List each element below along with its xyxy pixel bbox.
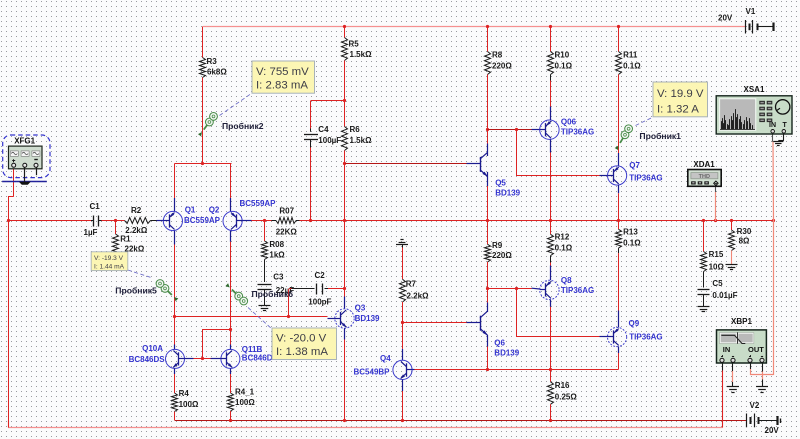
resistor R4 xyxy=(172,389,199,412)
wire Q1 collector drop xyxy=(174,164,176,212)
svg-text:20V: 20V xyxy=(718,14,733,23)
svg-text:100Ω: 100Ω xyxy=(179,400,199,409)
wire R7 to junction xyxy=(402,302,404,323)
svg-text:R13: R13 xyxy=(623,227,638,236)
svg-text:V1: V1 xyxy=(746,7,756,16)
svg-text:100pF: 100pF xyxy=(308,297,331,306)
resistor R1 xyxy=(113,234,145,255)
capacitor C2 xyxy=(308,271,331,306)
resistor R12 xyxy=(548,232,573,255)
resistor R30 xyxy=(729,227,752,251)
svg-text:C5: C5 xyxy=(712,279,723,288)
wire Q7 emitter down xyxy=(618,185,620,221)
wire Q3 emitter to bus1 xyxy=(344,328,346,420)
wire R8 top lead xyxy=(487,27,489,52)
node R08 junction xyxy=(263,219,266,222)
wire R10 top lead xyxy=(550,27,552,52)
node bus1 junction Q4 xyxy=(401,419,404,422)
wire Q5 emitter down xyxy=(487,172,489,221)
transistor Q11B BC846D xyxy=(221,345,273,369)
svg-text:I: 1.38 mA: I: 1.38 mA xyxy=(276,346,328,358)
node C2 tap junction xyxy=(287,315,290,318)
node top-bus junction R10 xyxy=(549,25,552,28)
wire R5 top lead xyxy=(344,27,346,38)
svg-text:BC559AP: BC559AP xyxy=(184,216,221,225)
wire Q7 base drop xyxy=(516,130,608,176)
resistor R07 xyxy=(276,206,298,236)
wire bus2 y=427 xyxy=(8,427,723,429)
node mid-bus junction R12 xyxy=(549,219,552,222)
wire R08 to C3 xyxy=(264,260,266,283)
resistor R5 xyxy=(342,38,373,61)
wire Q9 emitter elbow to base line xyxy=(618,368,620,370)
wire OUT+ lead xyxy=(750,363,752,375)
svg-text:R15: R15 xyxy=(709,250,724,259)
wire R11 to Q7 collector xyxy=(618,75,620,167)
probe Пробник5 xyxy=(156,280,178,302)
wire Q11 emitter down xyxy=(230,369,232,394)
svg-text:C2: C2 xyxy=(315,271,326,280)
svg-text:Пробник2: Пробник2 xyxy=(222,121,264,131)
wire C4 top lead xyxy=(310,101,312,132)
svg-text:8Ω: 8Ω xyxy=(739,237,750,246)
resistor R15 xyxy=(701,250,725,271)
wire R5R6 column to Q3 xyxy=(344,221,346,309)
svg-text:IN: IN xyxy=(723,345,731,354)
svg-text:Q5: Q5 xyxy=(495,179,506,188)
wire R10 to Q06 collector xyxy=(550,75,552,121)
wire R08 top lead xyxy=(264,221,266,241)
wire C2 right lead xyxy=(325,288,346,290)
svg-text:Q8: Q8 xyxy=(561,276,572,285)
svg-text:BC559AP: BC559AP xyxy=(240,199,277,208)
capacitor C4 xyxy=(304,125,341,145)
resistor R4_1 xyxy=(228,388,256,412)
svg-text:Q7: Q7 xyxy=(629,161,640,170)
svg-text:R3: R3 xyxy=(207,57,218,66)
node mid-bus junction R9 xyxy=(486,219,489,222)
svg-text:OUT: OUT xyxy=(748,345,764,354)
resistor R11 xyxy=(616,51,642,75)
resistor R08 xyxy=(262,240,286,260)
svg-text:BD139: BD139 xyxy=(355,314,380,323)
wire XBP1 OUT- down xyxy=(762,363,764,387)
wire Q4 base line mid xyxy=(488,369,551,371)
wire Q10 emitter down xyxy=(174,369,176,394)
probe value box Пробник1 xyxy=(653,82,708,117)
svg-text:I: 1.32 A: I: 1.32 A xyxy=(657,103,699,115)
transistor Q06 TIP36AG xyxy=(540,117,595,139)
node left trunk signal junction xyxy=(7,219,10,222)
wire C2 left lead xyxy=(289,288,315,290)
wire right column to XBP OUT+ xyxy=(750,221,774,375)
wire R16 to bus1 xyxy=(550,404,552,420)
node bus1 junction Q3 xyxy=(343,419,346,422)
resistor R6 xyxy=(342,125,373,151)
wire R12 to Q8 collector xyxy=(550,256,552,281)
wire Q9 base drop xyxy=(516,288,608,337)
wire C4 bottom lead xyxy=(310,140,312,222)
wire R15 top lead xyxy=(703,221,705,252)
wire R1 top lead xyxy=(115,221,117,234)
node T junction R3/Q1/Q2 xyxy=(201,162,204,165)
wire XBP1 IN+ down xyxy=(722,363,724,428)
svg-text:6k8Ω: 6k8Ω xyxy=(207,68,227,77)
svg-text:1kΩ: 1kΩ xyxy=(269,251,285,260)
label Пробник5 xyxy=(115,285,157,295)
svg-text:100µF: 100µF xyxy=(318,136,341,145)
svg-text:220Ω: 220Ω xyxy=(492,251,512,260)
svg-text:C4: C4 xyxy=(318,125,329,134)
resistor R8 xyxy=(485,51,513,75)
label Пробник2 xyxy=(222,121,264,131)
ground XBP1 OUT- xyxy=(756,387,768,393)
svg-text:Q1: Q1 xyxy=(185,206,196,215)
svg-text:XBP1: XBP1 xyxy=(731,317,752,326)
wire bus1 y=419.5 xyxy=(175,420,747,422)
probe link Пробник1 xyxy=(636,117,654,126)
ground R7 top (inverted) xyxy=(396,240,408,248)
wire Q2 emitter column xyxy=(230,231,232,350)
svg-text:R8: R8 xyxy=(492,51,503,60)
svg-text:BC846DS: BC846DS xyxy=(129,355,166,364)
svg-text:I: 2.83 mA: I: 2.83 mA xyxy=(256,80,308,92)
probe Пробник2 xyxy=(198,113,217,137)
node Q6 emitter junction xyxy=(486,368,489,371)
distortion analyzer XDA1 xyxy=(688,160,721,187)
node Q8 base junction xyxy=(486,287,489,290)
wire XFG1 plus lead xyxy=(8,169,14,197)
svg-text:V: -19.3 V: V: -19.3 V xyxy=(94,255,124,262)
svg-text:TIP36AG: TIP36AG xyxy=(561,286,594,295)
wire Q4 emitter down xyxy=(402,380,404,421)
resistor R7 xyxy=(400,279,430,302)
svg-text:0.1Ω: 0.1Ω xyxy=(623,62,641,71)
node C4 elbow junction xyxy=(343,99,346,102)
node mid-bus junction R5R6 xyxy=(343,219,346,222)
ground XSA1 xyxy=(773,142,783,146)
function generator XFG1 xyxy=(2,135,50,185)
svg-text:R1: R1 xyxy=(120,234,131,243)
wire XSA1 IN down xyxy=(773,134,774,221)
svg-text:BC549BP: BC549BP xyxy=(354,367,391,376)
wire C3 to ground xyxy=(264,289,266,305)
transistor Q3 BD139 xyxy=(335,304,380,328)
node Q4 base R16 junction xyxy=(549,368,552,371)
wire to Q3 base xyxy=(289,317,335,319)
wire R13 to Q9 collector xyxy=(618,248,620,327)
wire R2 to Q1 base xyxy=(151,220,164,222)
svg-text:XSA1: XSA1 xyxy=(744,85,765,94)
wire Q5 base line y=163 xyxy=(345,163,481,165)
wire Q2 collector drop xyxy=(230,164,232,212)
svg-text:T: T xyxy=(783,122,788,129)
node C2/R6 junction xyxy=(343,287,346,290)
node Q1/Q10 junction xyxy=(173,315,176,318)
transistor Q2 BC559AP xyxy=(209,199,276,231)
wire Q1 emitter column xyxy=(174,231,176,316)
svg-text:1.5kΩ: 1.5kΩ xyxy=(350,136,373,145)
svg-text:XDA1: XDA1 xyxy=(693,160,715,169)
probe Пробник1 xyxy=(615,125,633,150)
svg-text:Q6: Q6 xyxy=(494,339,505,348)
resistor R10 xyxy=(548,51,573,75)
wire Q06 emitter down xyxy=(550,139,552,221)
wire Q8 base line xyxy=(488,287,540,290)
svg-text:R10: R10 xyxy=(555,51,570,60)
svg-text:R11: R11 xyxy=(623,51,638,60)
probe value box Пробник2 xyxy=(252,61,315,93)
node bus1 junction R4_1 xyxy=(229,419,232,422)
wire left trunk x=7.5 xyxy=(8,197,10,428)
wire Q8 emitter down xyxy=(550,300,552,370)
spectrum analyzer XSA1 xyxy=(716,85,792,134)
svg-text:R4_1: R4_1 xyxy=(235,388,255,397)
node bus1 junction R16 xyxy=(549,419,552,422)
svg-text:Пробник5: Пробник5 xyxy=(115,285,157,295)
wire R13 top lead xyxy=(618,221,620,229)
wire R6 to Q5 junction xyxy=(344,151,346,222)
svg-text:V: 19.9 V: V: 19.9 V xyxy=(657,88,704,100)
svg-text:10Ω: 10Ω xyxy=(709,263,725,272)
svg-text:V2: V2 xyxy=(750,401,760,410)
wire R8 to Q5 collector xyxy=(487,75,489,157)
wire R30 top lead xyxy=(731,221,733,230)
ground R30 xyxy=(726,265,738,270)
probe link Пробник6 xyxy=(248,308,272,330)
svg-text:100Ω: 100Ω xyxy=(235,398,255,407)
svg-text:BD139: BD139 xyxy=(495,189,520,198)
wire R9 top lead xyxy=(487,221,489,244)
svg-text:C3: C3 xyxy=(273,272,284,281)
svg-text:R2: R2 xyxy=(131,206,142,215)
svg-text:R08: R08 xyxy=(269,240,284,249)
wire Q4 base line y=369 xyxy=(412,369,487,371)
wire XBP1 IN- down xyxy=(732,363,734,387)
transistor Q10A BC846DS xyxy=(129,344,185,368)
ground C5 xyxy=(698,307,710,312)
svg-text:Q3: Q3 xyxy=(355,304,366,313)
svg-text:Q2: Q2 xyxy=(209,206,220,215)
svg-text:V: 755 mV: V: 755 mV xyxy=(256,66,309,78)
svg-text:I: 1.44 mA: I: 1.44 mA xyxy=(94,263,125,270)
resistor R3 xyxy=(200,57,228,78)
svg-text:2.2kΩ: 2.2kΩ xyxy=(407,291,430,300)
svg-text:R6: R6 xyxy=(350,125,361,134)
svg-text:1µF: 1µF xyxy=(84,228,98,237)
wire R7 junction to Q4 collector xyxy=(402,323,404,360)
svg-text:0.25Ω: 0.25Ω xyxy=(555,392,578,401)
node top-bus junction R11 xyxy=(617,25,620,28)
svg-text:R9: R9 xyxy=(492,241,503,250)
svg-text:Q10A: Q10A xyxy=(142,344,163,353)
resistor R2 xyxy=(116,206,151,235)
svg-text:IN: IN xyxy=(769,122,776,129)
svg-text:TIP36AG: TIP36AG xyxy=(629,333,662,342)
svg-text:THD: THD xyxy=(699,174,710,180)
svg-text:XFG1: XFG1 xyxy=(14,137,35,146)
wire R3 column x=202.5 xyxy=(202,27,204,164)
svg-text:0.01µF: 0.01µF xyxy=(712,291,737,300)
transistor Q6 BD139 xyxy=(480,311,520,357)
svg-text:Q11B: Q11B xyxy=(242,345,263,354)
node mid-bus junction R30 xyxy=(730,219,733,222)
wire top V+ bus y=26 xyxy=(203,26,746,28)
wire C2 corner xyxy=(288,289,290,317)
svg-text:Пробник1: Пробник1 xyxy=(639,131,681,141)
probe value box Пробник5 (mini) xyxy=(91,252,128,271)
wire mid bus y=220.5 xyxy=(296,220,774,222)
node mid-bus junction R13 xyxy=(617,219,620,222)
node top-bus junction R5 xyxy=(343,25,346,28)
wire Q10 collector lead xyxy=(174,316,176,349)
svg-text:R4: R4 xyxy=(179,389,190,398)
resistor R16 xyxy=(548,381,578,404)
transistor Q4 BC549BP xyxy=(354,354,413,380)
ground C3 xyxy=(259,306,271,311)
svg-text:R7: R7 xyxy=(406,280,417,289)
wire R5 to junction xyxy=(344,61,346,127)
wire Q4 base line right xyxy=(551,369,619,371)
svg-text:220Ω: 220Ω xyxy=(492,62,512,71)
probe link Пробник2 xyxy=(220,93,253,116)
svg-text:R07: R07 xyxy=(279,206,294,215)
node top-bus junction R8 xyxy=(486,25,489,28)
transistor Q8 TIP36AG xyxy=(540,276,595,299)
capacitor C5 xyxy=(698,279,738,300)
node mid-bus junction R15 xyxy=(702,219,705,222)
probe link Пробник5 xyxy=(128,270,153,278)
resistor R9 xyxy=(485,241,513,262)
svg-text:0.1Ω: 0.1Ω xyxy=(555,244,573,253)
wire R7 top lead xyxy=(402,248,404,280)
wire R4_1 to bus1 xyxy=(230,411,232,420)
wire XDA1 down xyxy=(715,186,717,221)
node R7/Q6 junction xyxy=(401,321,404,324)
node mid-bus junction C4 xyxy=(309,219,312,222)
transistor Q5 BD139 xyxy=(480,152,521,197)
wire Q11 diode elbow xyxy=(202,330,231,359)
svg-text:Q9: Q9 xyxy=(629,319,640,328)
label Пробник1 xyxy=(639,131,681,141)
svg-text:TIP36AG: TIP36AG xyxy=(561,127,594,136)
node mid-bus right end xyxy=(772,219,775,222)
wire Q1/Q2 top tee y=163 xyxy=(175,163,232,165)
svg-text:22KΩ: 22KΩ xyxy=(276,227,298,236)
wire C4 elbow xyxy=(311,100,345,102)
wire XSA1 T to ground xyxy=(778,133,784,141)
node Q06 base junction xyxy=(486,128,489,131)
wire Q06 base line y=129 xyxy=(488,129,540,131)
battery V2 xyxy=(747,401,781,435)
wire R16 top lead xyxy=(550,370,552,382)
wire bus2 left elbow xyxy=(8,421,10,428)
svg-text:R5: R5 xyxy=(349,40,360,49)
node mid-bus junction XDA1 xyxy=(714,219,717,222)
wire R11 top lead xyxy=(618,27,620,52)
node Q7 drop junction xyxy=(515,128,518,131)
svg-text:BD139: BD139 xyxy=(494,349,519,358)
wire C5 to ground xyxy=(703,295,705,307)
node R1 junction xyxy=(114,219,117,222)
capacitor C1 xyxy=(84,202,102,237)
wire Q6 base line y=322.5 xyxy=(402,322,481,324)
wire Q9 emitter down xyxy=(618,347,620,370)
node Q9 drop junction xyxy=(515,287,518,290)
wire Q10-Q11 base link xyxy=(185,358,221,360)
node base link junction xyxy=(201,357,204,360)
svg-text:Q4: Q4 xyxy=(380,354,391,363)
svg-text:1.5kΩ: 1.5kΩ xyxy=(350,50,373,59)
svg-text:C1: C1 xyxy=(90,202,101,211)
wire R15 to C5 xyxy=(703,272,705,288)
svg-text:R30: R30 xyxy=(737,227,752,236)
ground XBP1 IN- xyxy=(727,387,739,393)
wire input line to C1 xyxy=(8,220,91,222)
wire Q6 emitter down xyxy=(487,335,489,369)
capacitor C3 xyxy=(258,272,295,295)
svg-text:20V: 20V xyxy=(765,426,780,435)
wire R30 to ground xyxy=(731,251,733,265)
wire Q2 base to R07 xyxy=(242,220,276,222)
probe Пробник6 xyxy=(225,283,247,305)
wire R9 to Q6 collector xyxy=(487,262,489,312)
wire R4 elbow xyxy=(174,412,176,421)
battery V1 xyxy=(718,7,774,34)
transistor Q9 TIP36AG xyxy=(608,319,663,347)
probe value box Пробник6 xyxy=(272,328,337,360)
svg-text:0.1Ω: 0.1Ω xyxy=(623,239,641,248)
node Q5 base junction xyxy=(343,162,346,165)
transistor Q7 TIP36AG xyxy=(608,161,663,185)
svg-text:R16: R16 xyxy=(555,381,570,390)
svg-text:V: -20.0 V: V: -20.0 V xyxy=(276,333,327,345)
wire R12 top lead xyxy=(550,221,552,234)
resistor R13 xyxy=(616,227,642,248)
bode plotter XBP1 xyxy=(717,317,767,363)
svg-text:Пробник6: Пробник6 xyxy=(252,289,294,299)
svg-text:TIP36AG: TIP36AG xyxy=(629,174,662,183)
wire base line y=316.5 xyxy=(175,316,290,318)
svg-text:0.1Ω: 0.1Ω xyxy=(555,62,573,71)
label Пробник6 xyxy=(252,289,294,299)
svg-text:BC846D: BC846D xyxy=(242,354,273,363)
wire C1 to R1 node xyxy=(102,220,116,222)
svg-text:Q06: Q06 xyxy=(561,117,577,126)
node Q11 collector junction xyxy=(229,328,232,331)
transistor Q1 BC559AP xyxy=(163,206,220,231)
svg-text:R12: R12 xyxy=(555,232,570,241)
